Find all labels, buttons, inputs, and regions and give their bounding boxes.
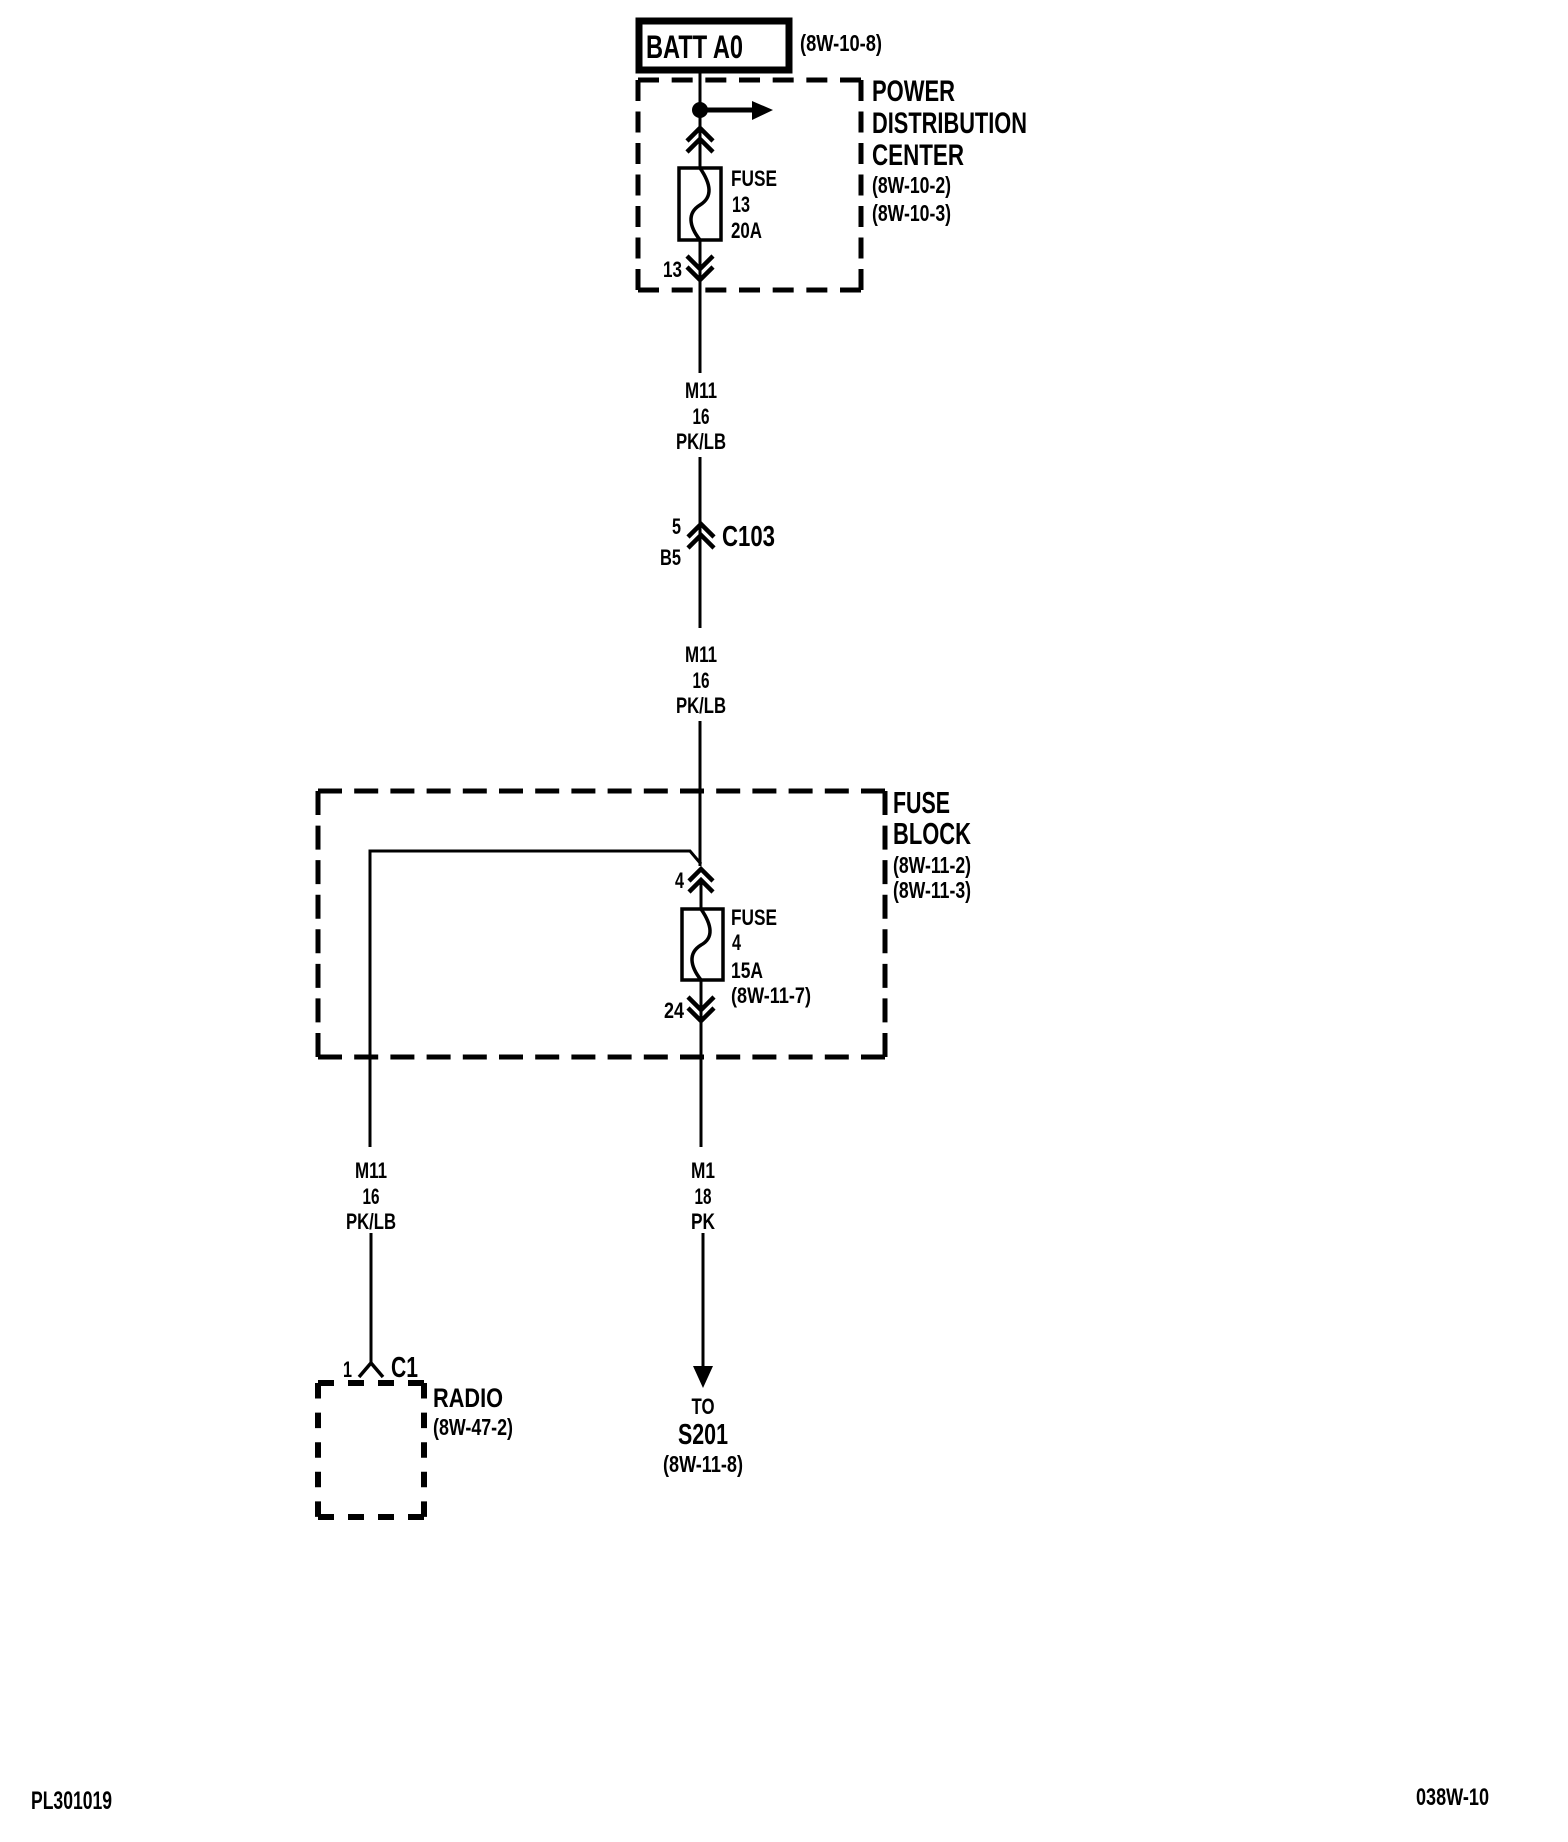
svg-text:TO: TO (692, 1394, 715, 1419)
fuse block dashed box (318, 791, 885, 1057)
wire label M11 16 PK/LB (radio branch) (346, 1158, 396, 1234)
connector chevrons out of fuse block (double down arrows) (688, 997, 714, 1021)
svg-text:13: 13 (732, 192, 750, 217)
svg-text:1: 1 (343, 1357, 352, 1382)
svg-text:C1: C1 (391, 1352, 418, 1384)
svg-text:B5: B5 (660, 545, 681, 570)
svg-text:C103: C103 (722, 521, 775, 553)
svg-text:FUSE: FUSE (731, 905, 777, 930)
wire to radio connector C1 (370, 1233, 373, 1363)
radio dashed box (318, 1383, 424, 1517)
svg-text:POWER: POWER (872, 75, 955, 108)
svg-text:FUSE: FUSE (893, 785, 950, 820)
svg-text:M1: M1 (691, 1158, 715, 1183)
label FUSE 13 20A (731, 166, 777, 243)
svg-text:PK/LB: PK/LB (346, 1209, 396, 1234)
connector chevrons into fuse 13 (double up arrows) (687, 128, 713, 152)
node BATT A0 feed box (639, 21, 789, 70)
svg-text:038W-10: 038W-10 (1416, 1784, 1489, 1811)
svg-text:PL301019: PL301019 (31, 1787, 112, 1815)
label RADIO (8W-47-2) (433, 1383, 513, 1440)
svg-text:S201: S201 (678, 1419, 728, 1451)
wire label M1 18 PK (splice branch) (691, 1158, 715, 1234)
svg-text:RADIO: RADIO (433, 1383, 503, 1413)
arrow feed to the right (700, 101, 773, 120)
svg-text:16: 16 (693, 404, 710, 429)
svg-text:(8W-10-2): (8W-10-2) (872, 172, 951, 198)
svg-text:4: 4 (675, 868, 685, 893)
svg-text:CENTER: CENTER (872, 139, 964, 172)
svg-text:PK: PK (691, 1209, 715, 1234)
fuse 13 element box with S-curve (679, 168, 721, 240)
svg-text:PK/LB: PK/LB (676, 429, 726, 454)
label POWER DISTRIBUTION CENTER (872, 75, 1027, 226)
label TO S201 (8W-11-8) (663, 1394, 743, 1477)
svg-text:(8W-11-3): (8W-11-3) (893, 877, 971, 903)
svg-text:15A: 15A (731, 958, 763, 983)
svg-text:M11: M11 (685, 642, 717, 667)
svg-text:FUSE: FUSE (731, 166, 777, 191)
svg-text:16: 16 (363, 1184, 380, 1209)
wire into fuse block (699, 721, 702, 866)
svg-text:4: 4 (732, 930, 742, 955)
svg-text:(8W-10-8): (8W-10-8) (800, 30, 882, 56)
svg-text:DISTRIBUTION: DISTRIBUTION (872, 107, 1027, 140)
svg-text:(8W-10-3): (8W-10-3) (872, 200, 951, 226)
wire from fuse 4 down out of fuse block (700, 980, 703, 1147)
svg-text:M11: M11 (685, 378, 717, 403)
svg-text:M11: M11 (355, 1158, 387, 1183)
svg-text:BATT A0: BATT A0 (646, 29, 743, 65)
svg-text:18: 18 (695, 1184, 712, 1209)
wire from BATT A0 down to fuse 13 (699, 70, 702, 170)
svg-text:24: 24 (664, 998, 685, 1023)
svg-text:20A: 20A (731, 218, 762, 243)
svg-text:5: 5 (672, 514, 681, 539)
label FUSE BLOCK (893, 785, 971, 903)
svg-text:(8W-11-7): (8W-11-7) (731, 983, 811, 1008)
wire down to connector C103 (699, 457, 702, 628)
fuse 4 element box with S-curve (682, 909, 723, 980)
wire arrow to splice S201 (693, 1233, 713, 1388)
branch wire to radio (horizontal + corner) (370, 851, 701, 1147)
connector chevrons into fuse 4 (double up arrows) (689, 869, 713, 892)
svg-text:(8W-11-8): (8W-11-8) (663, 1451, 743, 1477)
svg-text:16: 16 (693, 668, 710, 693)
svg-text:(8W-11-2): (8W-11-2) (893, 852, 971, 878)
svg-text:13: 13 (663, 257, 682, 282)
svg-text:BLOCK: BLOCK (893, 816, 971, 851)
power distribution center dashed box (638, 80, 861, 290)
junction dot (692, 102, 708, 118)
wire label M11 16 PK/LB (lower) (676, 642, 726, 718)
label FUSE 4 15A (8W-11-7) (731, 905, 811, 1008)
wire chevrons to fuse 4 (700, 880, 703, 909)
connector C1 Y symbol (359, 1363, 383, 1377)
svg-text:(8W-47-2): (8W-47-2) (433, 1414, 513, 1440)
svg-text:PK/LB: PK/LB (676, 693, 726, 718)
connector chevrons out of PDC (double down arrows) (687, 256, 713, 280)
wire label M11 16 PK/LB (upper) (676, 378, 726, 454)
wire from fuse 13 down through PDC edge (699, 240, 702, 373)
connector C103 chevrons (double up arrows) (688, 524, 714, 548)
